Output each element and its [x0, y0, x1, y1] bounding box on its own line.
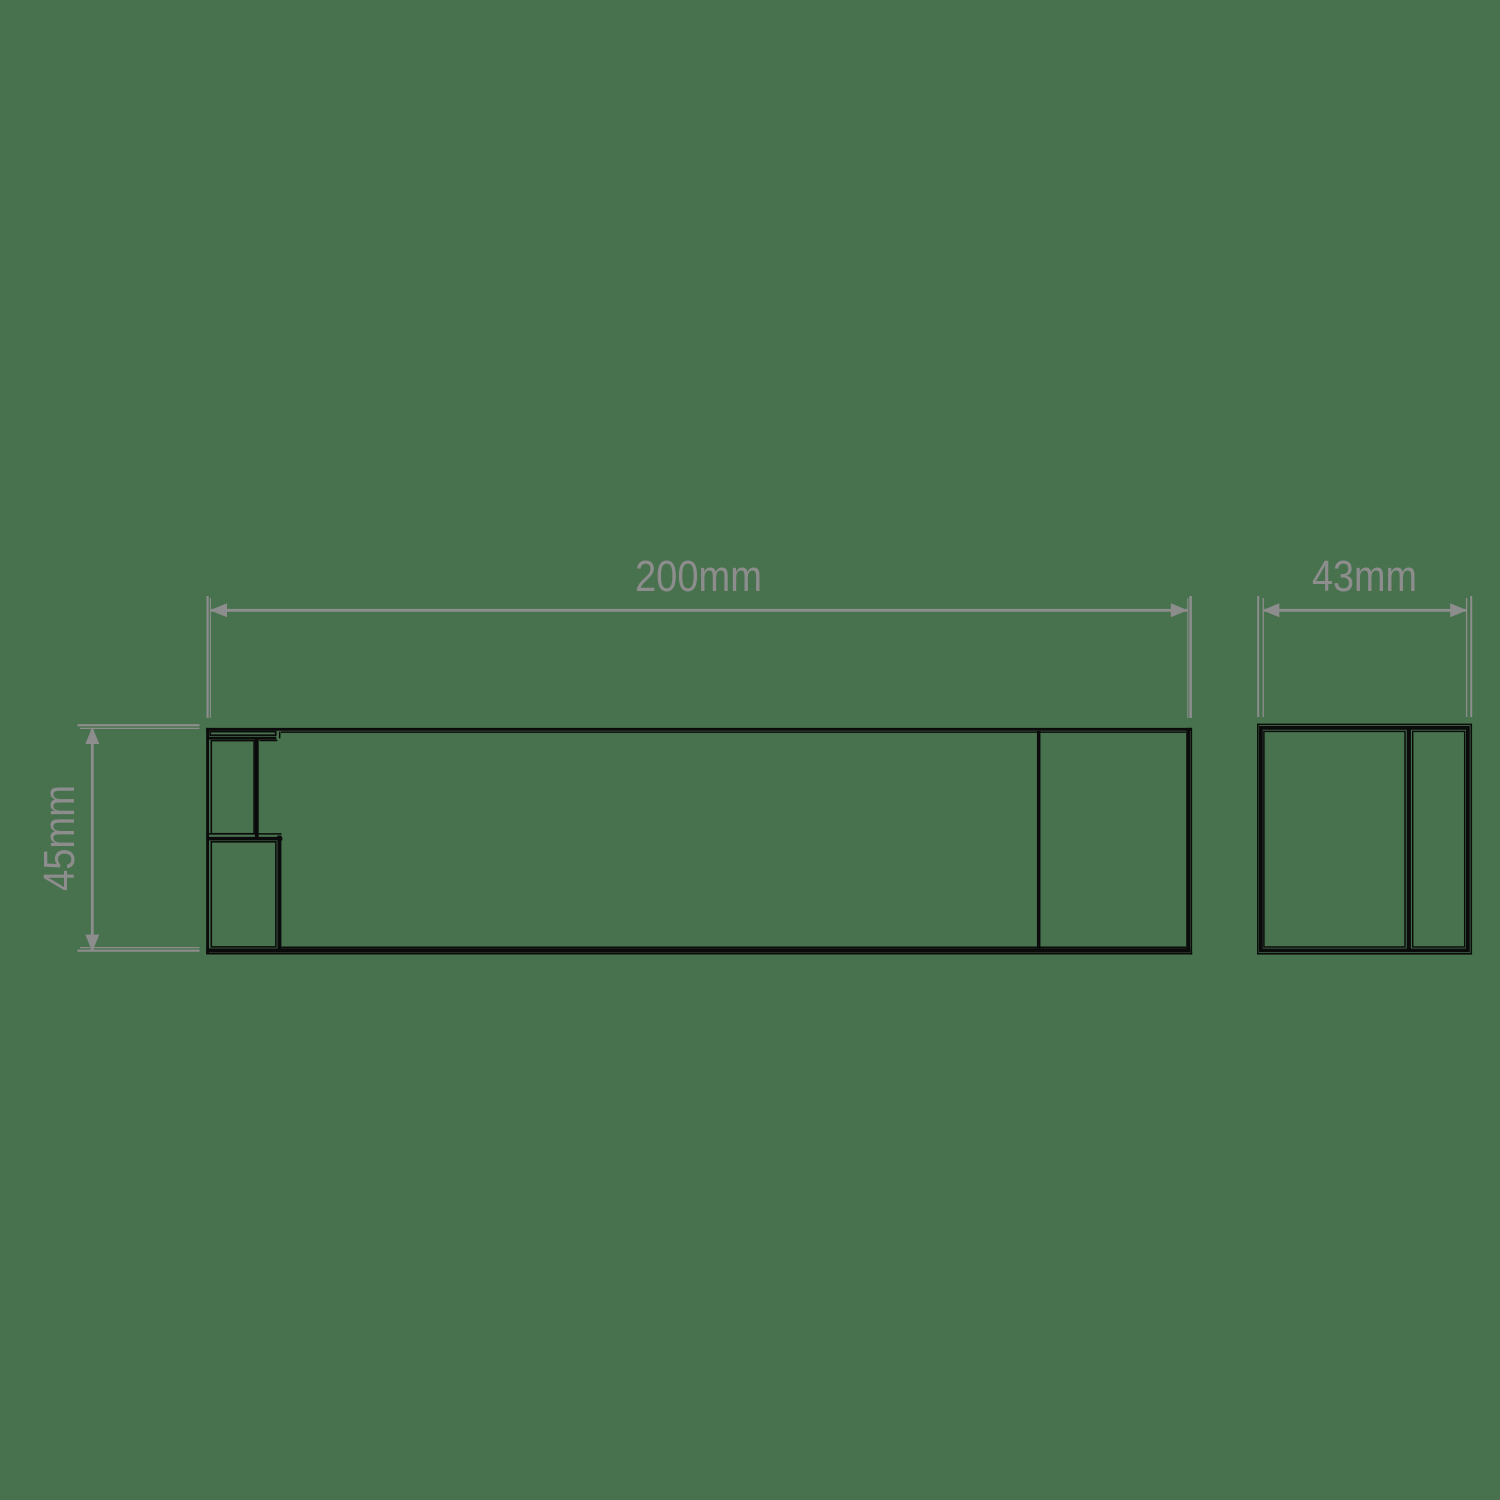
- arrowhead 45mm top: [85, 727, 99, 744]
- side view lower box right wall: [277, 836, 281, 953]
- end view divider: [1407, 728, 1411, 951]
- extension line 43mm left: [1257, 596, 1259, 717]
- side view terminal box lower: [211, 842, 276, 947]
- dimension line 200mm: [211, 609, 1188, 612]
- extension line 43mm right: [1466, 598, 1468, 717]
- side view upper box right wall: [255, 739, 259, 839]
- end view outer thin rectangle: [1258, 724, 1472, 953]
- side view lid line (inner top): [281, 731, 1186, 733]
- svg-text:43mm: 43mm: [1312, 553, 1417, 601]
- side view short horizontal line right of upper box: [259, 740, 277, 742]
- side view inner bottom line: [282, 946, 1187, 948]
- side view slot bottom line: [206, 737, 276, 740]
- side view step line thick: [206, 837, 282, 841]
- extension line 200mm left: [207, 596, 209, 718]
- side view step line thin: [206, 833, 281, 835]
- arrowhead 200mm right: [1171, 603, 1188, 617]
- extension line 200mm right: [1187, 598, 1189, 718]
- svg-text:200mm: 200mm: [635, 553, 762, 601]
- side view outline right edge thin: [1190, 728, 1192, 955]
- arrowhead 200mm left: [210, 603, 227, 617]
- side view short vertical step at lid start: [279, 732, 281, 739]
- dimension line 45mm: [91, 729, 94, 950]
- extension line 45mm bottom: [78, 950, 200, 952]
- extension line 45mm top: [78, 724, 200, 726]
- arrowhead 43mm right: [1450, 603, 1467, 617]
- side view outline bottom edge thin: [206, 953, 1192, 955]
- side view outline left edge: [206, 728, 209, 955]
- side view right divider: [1037, 731, 1041, 949]
- arrowhead 43mm left: [1262, 603, 1279, 617]
- end view inner thin rectangle left: [1264, 731, 1405, 947]
- svg-text:45mm: 45mm: [36, 785, 84, 891]
- side view top-left slot: [210, 732, 276, 736]
- dimension line 43mm: [1263, 609, 1467, 612]
- side view outline right edge thick: [1186, 728, 1190, 953]
- side view terminal box upper: [211, 741, 254, 834]
- arrowhead 45mm bottom: [85, 935, 99, 952]
- side view outline top edge: [206, 728, 1192, 731]
- side view outline bottom edge thick: [206, 948, 1190, 952]
- end view thick rectangle: [1261, 728, 1468, 951]
- end view inner thin rectangle right: [1413, 731, 1465, 947]
